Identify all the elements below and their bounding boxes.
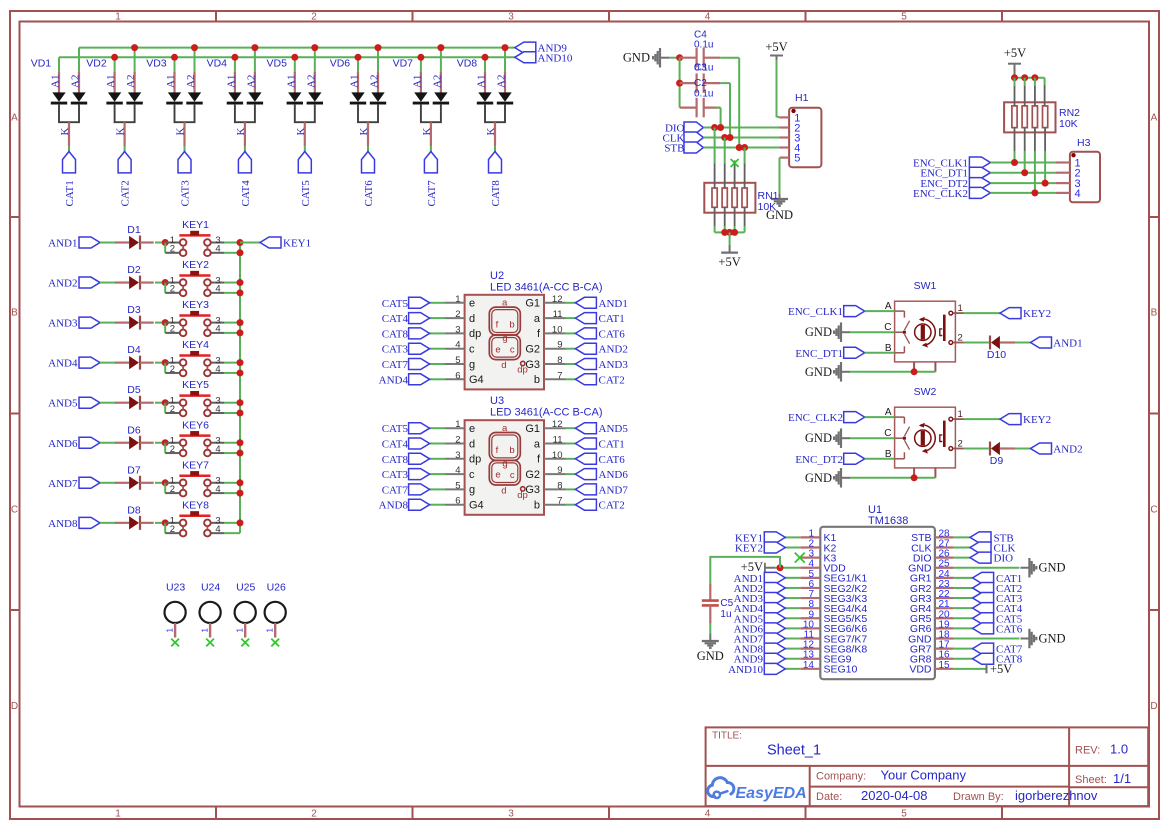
ground GND (SW2 mount) (840, 468, 842, 488)
svg-text:C: C (11, 505, 18, 516)
svg-text:2020-04-08: 2020-04-08 (861, 788, 928, 803)
svg-text:2: 2 (170, 524, 175, 535)
net flag CAT2 (U2 pin 7) (566, 378, 576, 380)
svg-text:KEY5: KEY5 (182, 379, 209, 391)
net flag AND1 (1031, 337, 1052, 348)
svg-text:AND8: AND8 (48, 518, 78, 530)
wire KEY8 pins 3/4 to bus (224, 522, 240, 524)
svg-text:11: 11 (553, 435, 563, 446)
svg-text:KEY2: KEY2 (1023, 414, 1051, 426)
net flag KEY2 (U1 pin2) (785, 547, 800, 549)
svg-text:A2: A2 (496, 75, 508, 88)
svg-text:9: 9 (557, 340, 562, 351)
svg-text:d: d (469, 313, 475, 325)
svg-text:G4: G4 (469, 374, 484, 386)
diode D8 (115, 504, 154, 530)
LED pair VD3 (146, 44, 203, 146)
svg-text:G2: G2 (525, 344, 540, 356)
svg-text:D2: D2 (127, 264, 141, 276)
net flag AND5 (U1 pin 9) (785, 617, 800, 619)
svg-text:2: 2 (170, 244, 175, 255)
wire bus to KEY1 flag (240, 242, 260, 244)
net flag CLK (U1 pin 27) (954, 547, 970, 549)
svg-text:1: 1 (455, 294, 460, 305)
svg-text:7: 7 (557, 370, 562, 381)
switch KEY2 (165, 259, 224, 296)
svg-text:1: 1 (958, 409, 963, 420)
no-connect X (U26) (271, 639, 279, 647)
net flag AND9 (U1 pin 13) (785, 658, 800, 660)
svg-text:CAT1: CAT1 (599, 313, 625, 325)
svg-text:AND6: AND6 (599, 469, 629, 481)
svg-text:U24: U24 (201, 582, 220, 594)
svg-text:AND6: AND6 (48, 438, 78, 450)
net flag CAT8 (489, 152, 502, 173)
switch KEY8 (165, 499, 224, 536)
net flag AND9 (515, 42, 536, 53)
svg-text:4: 4 (1075, 188, 1081, 200)
svg-text:AND10: AND10 (728, 664, 763, 676)
svg-text:U25: U25 (236, 582, 255, 594)
svg-text:SEG10: SEG10 (824, 664, 858, 676)
svg-text:STB: STB (664, 143, 684, 155)
wire K to CAT5 (304, 146, 306, 152)
svg-text:AND5: AND5 (599, 423, 629, 435)
svg-text:CAT4: CAT4 (240, 180, 252, 207)
svg-text:U3: U3 (490, 395, 504, 407)
svg-text:AND3: AND3 (48, 318, 78, 330)
wire AND5 to D5 (100, 402, 116, 404)
svg-text:A2: A2 (245, 75, 257, 88)
svg-text:AND10: AND10 (538, 52, 573, 64)
net flag CAT2 (U1 pin 23) (954, 587, 973, 589)
svg-text:A1: A1 (165, 75, 177, 88)
svg-text:4: 4 (215, 444, 220, 455)
svg-text:1: 1 (115, 809, 121, 820)
svg-text:C2: C2 (694, 78, 707, 89)
switch KEY4 (165, 339, 224, 376)
svg-text:A2: A2 (369, 75, 381, 88)
svg-text:K: K (115, 127, 127, 135)
wire KEY6 pins 3/4 to bus (224, 442, 240, 444)
svg-text:4: 4 (705, 12, 711, 23)
svg-text:e: e (495, 344, 500, 355)
net flag AND6 (79, 437, 100, 448)
wire K to CAT7 (430, 146, 432, 152)
net flag ENC_CLK1 (969, 157, 990, 168)
svg-text:d: d (501, 360, 506, 371)
wire D7 to KEY7 pins 1/2 (155, 482, 165, 484)
net flag ENC_CLK2 (969, 187, 990, 198)
svg-text:CAT3: CAT3 (382, 344, 409, 356)
wire +5V to H1.1 (776, 56, 778, 61)
svg-text:A1: A1 (50, 75, 62, 88)
svg-text:a: a (502, 298, 508, 309)
capacitor C3 0.1u (680, 63, 721, 93)
svg-text:ENC_CLK2: ENC_CLK2 (788, 412, 843, 424)
svg-text:AND7: AND7 (48, 478, 78, 490)
svg-text:Company:: Company: (816, 771, 866, 783)
svg-text:B: B (11, 308, 18, 319)
svg-text:D: D (1150, 701, 1157, 712)
no-connect X (U25) (241, 639, 249, 647)
svg-text:VD8: VD8 (457, 57, 478, 69)
net flag CAT1 (U3 pin 11) (566, 443, 576, 445)
svg-text:A1: A1 (349, 75, 361, 88)
wire D3 to KEY3 pins 1/2 (155, 322, 165, 324)
net flag CAT5 (298, 152, 311, 173)
svg-text:K: K (358, 128, 370, 136)
svg-text:G4: G4 (469, 500, 484, 512)
svg-text:g: g (502, 333, 507, 344)
wire U1.15 to +5V (954, 668, 986, 670)
svg-text:C: C (1150, 505, 1157, 516)
svg-text:f: f (496, 445, 499, 456)
wire GND to SW2 mount pins (850, 477, 935, 479)
svg-text:5: 5 (455, 355, 460, 366)
svg-text:CAT7: CAT7 (382, 359, 409, 371)
svg-text:dp: dp (469, 454, 481, 466)
switch KEY1 (165, 219, 224, 256)
svg-text:CAT1: CAT1 (599, 439, 625, 451)
svg-text:A1: A1 (225, 75, 237, 88)
svg-text:CAT6: CAT6 (599, 454, 626, 466)
svg-text:CAT4: CAT4 (382, 439, 409, 451)
svg-text:4: 4 (705, 809, 711, 820)
svg-text:4: 4 (455, 465, 460, 476)
wire AND9 bus (A2 anodes) (79, 47, 515, 49)
wire GND to SW2.C (850, 437, 895, 439)
EasyEDA logo (708, 778, 807, 802)
title block (706, 727, 1149, 806)
svg-text:12: 12 (552, 294, 563, 305)
svg-text:D10: D10 (987, 349, 1006, 361)
ground GND (H1 pin5) (779, 193, 781, 199)
wire AND1 to D1 (100, 242, 116, 244)
svg-text:1: 1 (200, 628, 209, 633)
svg-text:8: 8 (557, 480, 562, 491)
net flag AND2 (79, 277, 100, 288)
wire KEY1 net vertical bus (239, 243, 241, 534)
svg-text:KEY2: KEY2 (182, 259, 209, 271)
ground GND (SW2 C) (840, 428, 842, 448)
svg-text:1: 1 (115, 12, 121, 23)
net flag AND6 (U1 pin 10) (785, 627, 800, 629)
svg-text:AND7: AND7 (599, 484, 629, 496)
switch KEY5 (165, 379, 224, 416)
svg-text:KEY1: KEY1 (182, 219, 209, 231)
svg-text:D: D (11, 701, 18, 712)
svg-text:K: K (295, 128, 307, 136)
LED pair VD5 (267, 44, 324, 146)
rotary encoder SW1 (884, 280, 963, 372)
switch KEY6 (165, 419, 224, 456)
svg-text:B: B (1151, 308, 1158, 319)
net flag AND2 (1031, 443, 1052, 454)
net flag CAT1 (63, 152, 76, 173)
svg-text:GND: GND (805, 365, 832, 379)
svg-text:AND5: AND5 (48, 398, 78, 410)
svg-text:5: 5 (901, 12, 907, 23)
svg-text:dp: dp (517, 364, 528, 375)
LED pair VD6 (330, 44, 387, 146)
ground GND (U1 pin18) (1020, 638, 1029, 640)
wire K to CAT4 (244, 146, 246, 152)
net flag CAT3 (U1 pin 22) (954, 597, 973, 599)
svg-text:4: 4 (215, 364, 220, 375)
net flag AND1 (U1 pin 5) (785, 577, 800, 579)
wire SW2.1 to KEY2 (964, 418, 1001, 420)
svg-text:REV:: REV: (1075, 745, 1100, 757)
svg-text:5: 5 (455, 480, 460, 491)
wire D9 to AND2 (1015, 448, 1031, 450)
net flag ENC_CLK2 (SW2 A) (844, 412, 865, 423)
net flag ENC_DT2 (969, 178, 990, 189)
wire D1 to KEY1 pins 1/2 (155, 242, 165, 244)
svg-text:a: a (534, 313, 541, 325)
svg-text:e: e (469, 298, 475, 310)
LED pair VD1 (31, 48, 87, 146)
diode D4 (115, 344, 154, 370)
net flag CAT7 (U2 pin 5) (430, 363, 445, 365)
svg-text:AND2: AND2 (1053, 444, 1082, 456)
net flag CAT1 (U2 pin 11) (566, 317, 576, 319)
svg-text:d: d (469, 438, 475, 450)
net flag AND2 (U2 pin 9) (566, 348, 576, 350)
svg-text:KEY2: KEY2 (1023, 308, 1051, 320)
LED pair VD2 (86, 44, 143, 146)
svg-text:CAT3: CAT3 (382, 469, 409, 481)
net flag AND1 (U2 pin 12) (566, 302, 576, 304)
svg-text:c: c (510, 470, 515, 481)
svg-text:AND2: AND2 (48, 278, 77, 290)
capacitor C5 1u (702, 583, 734, 624)
svg-text:D1: D1 (127, 224, 141, 236)
net flag AND7 (U1 pin 11) (785, 638, 800, 640)
svg-text:CAT7: CAT7 (426, 180, 438, 207)
IC U2 LED 3461 7-segment display (445, 270, 602, 390)
svg-text:g: g (469, 359, 475, 371)
wire ENC_CLK1 to H3.1 (990, 162, 1056, 164)
svg-text:+5V: +5V (718, 255, 740, 269)
wire AND2 to D2 (100, 282, 116, 284)
wire K to CAT2 (124, 146, 126, 152)
svg-text:2: 2 (455, 309, 460, 320)
svg-text:KEY4: KEY4 (182, 339, 209, 351)
svg-text:AND4: AND4 (48, 358, 78, 370)
net flag AND3 (79, 317, 100, 328)
svg-text:9: 9 (557, 465, 562, 476)
net flag AND4 (79, 357, 100, 368)
diode D2 (115, 264, 154, 290)
net flag KEY1 (260, 237, 281, 248)
wire K to CAT1 (68, 146, 70, 152)
svg-text:AND4: AND4 (379, 374, 409, 386)
diode D5 (115, 384, 154, 410)
net flag STB (U1 pin 28) (954, 536, 970, 538)
net flag CAT6 (362, 152, 375, 173)
svg-text:1: 1 (265, 628, 274, 633)
svg-text:4: 4 (215, 484, 220, 495)
wire ENC_DT2 to SW2.B (865, 458, 895, 460)
wire U1.25 to GND (954, 567, 1020, 569)
svg-text:6: 6 (455, 370, 460, 381)
net flag AND3 (U2 pin 8) (566, 363, 576, 365)
svg-text:g: g (502, 459, 507, 470)
capacitor C2 0.1u (680, 78, 721, 117)
svg-text:VD7: VD7 (393, 57, 414, 69)
svg-text:AND1: AND1 (48, 238, 77, 250)
svg-text:LED 3461(A-CC B-CA): LED 3461(A-CC B-CA) (490, 407, 602, 419)
net flag ENC_DT2 (SW2 B) (844, 453, 865, 464)
wire KEY1 pins 3/4 to bus (224, 242, 240, 244)
net flag AND8 (U1 pin 12) (785, 648, 800, 650)
svg-text:VD1: VD1 (31, 57, 52, 69)
IC U1 TM1638 (800, 504, 953, 679)
svg-text:1: 1 (958, 303, 963, 314)
net flag CAT8 (U1 pin 16) (954, 658, 973, 660)
svg-text:ENC_CLK2: ENC_CLK2 (913, 188, 968, 200)
svg-text:K: K (421, 128, 433, 136)
svg-text:2: 2 (311, 12, 317, 23)
net flag CAT7 (U3 pin 5) (430, 488, 445, 490)
svg-text:VD6: VD6 (330, 57, 351, 69)
wire RN1 commons to +5V (715, 231, 745, 233)
svg-text:4: 4 (455, 340, 460, 351)
no-connect X (U23) (171, 639, 179, 647)
net flag AND10 (515, 52, 536, 63)
net flag CAT8 (U2 pin 3) (430, 332, 445, 334)
diode D7 (115, 464, 154, 490)
svg-text:2: 2 (170, 284, 175, 295)
net flag AND3 (U1 pin 7) (785, 597, 800, 599)
svg-text:A2: A2 (305, 75, 317, 88)
wire K to CAT6 (367, 146, 369, 152)
svg-text:SW1: SW1 (914, 280, 937, 292)
svg-text:A: A (11, 113, 18, 124)
svg-text:1/1: 1/1 (1113, 771, 1131, 786)
svg-text:LED 3461(A-CC B-CA): LED 3461(A-CC B-CA) (490, 281, 602, 293)
wire +5V to U1.4 and C5 (765, 567, 775, 569)
wire U1.18 to GND (954, 638, 1020, 640)
svg-text:A: A (1151, 113, 1158, 124)
net flag CAT6 (U2 pin 10) (566, 332, 576, 334)
net flag DIO (684, 122, 703, 133)
wire D4 to KEY4 pins 1/2 (155, 362, 165, 364)
svg-text:TITLE:: TITLE: (712, 731, 742, 742)
ground GND (U1 pin25) (1020, 567, 1029, 569)
resistor network RN2 10K (1004, 78, 1080, 193)
wire K to CAT8 (494, 146, 496, 152)
svg-text:a: a (534, 438, 541, 450)
diode D1 (115, 224, 154, 250)
wire ENC_CLK2 to SW2.A (865, 416, 895, 418)
svg-text:3: 3 (455, 324, 460, 335)
wire ENC_DT2 to H3.3 (990, 182, 1056, 184)
svg-text:3: 3 (455, 450, 460, 461)
wire AND6 to D6 (100, 442, 116, 444)
svg-text:2: 2 (170, 324, 175, 335)
svg-text:4: 4 (215, 404, 220, 415)
svg-text:GND: GND (805, 431, 832, 445)
svg-text:CAT2: CAT2 (120, 180, 132, 206)
svg-text:VD4: VD4 (207, 57, 228, 69)
no-connect X on RN1 pin (731, 159, 739, 167)
svg-text:H1: H1 (795, 92, 809, 104)
wire D5 to KEY5 pins 1/2 (155, 402, 165, 404)
svg-text:G2: G2 (525, 469, 540, 481)
wire D6 to KEY6 pins 1/2 (155, 442, 165, 444)
svg-text:H3: H3 (1077, 137, 1091, 149)
svg-text:D9: D9 (990, 455, 1004, 467)
net flag AND8 (U3 pin 6) (430, 504, 445, 506)
svg-text:dp: dp (517, 490, 528, 501)
mounting hole U26 (265, 582, 286, 638)
net flag AND5 (U3 pin 12) (566, 427, 576, 429)
net flag AND10 (U1 pin 14) (785, 668, 800, 670)
svg-text:A1: A1 (411, 75, 423, 88)
svg-text:12: 12 (552, 419, 563, 430)
wire ENC_CLK2 to H3.4 (990, 192, 1056, 194)
net flag CAT5 (U3 pin 1) (430, 427, 445, 429)
wire KEY2 pins 3/4 to bus (224, 282, 240, 284)
net flag CAT6 (U3 pin 10) (566, 458, 576, 460)
svg-text:GND: GND (1039, 561, 1066, 575)
svg-text:2: 2 (170, 444, 175, 455)
net flag CAT6 (U1 pin 19) (954, 627, 973, 629)
IC U3 LED 3461 7-segment display (445, 395, 602, 515)
svg-text:VD3: VD3 (146, 57, 167, 69)
svg-text:11: 11 (553, 309, 563, 320)
svg-text:d: d (501, 486, 506, 497)
svg-text:CAT6: CAT6 (996, 623, 1023, 635)
svg-text:D7: D7 (127, 464, 141, 476)
svg-text:CAT6: CAT6 (363, 180, 375, 207)
wire D2 to KEY2 pins 1/2 (155, 282, 165, 284)
net flag AND4 (U2 pin 6) (430, 378, 445, 380)
wire GND to C4 / rail (669, 57, 680, 59)
svg-text:f: f (496, 320, 499, 331)
net flag AND7 (U3 pin 8) (566, 488, 576, 490)
svg-text:AND3: AND3 (599, 359, 629, 371)
switch KEY7 (165, 459, 224, 496)
svg-text:A2: A2 (185, 75, 197, 88)
svg-text:4: 4 (215, 324, 220, 335)
svg-text:e: e (495, 470, 500, 481)
net flag CAT3 (178, 152, 191, 173)
wire SW2.2 to D9 (964, 448, 989, 450)
net flag AND8 (79, 517, 100, 528)
svg-text:a: a (502, 423, 508, 434)
svg-text:ENC_CLK1: ENC_CLK1 (788, 306, 843, 318)
svg-text:U2: U2 (490, 270, 504, 282)
svg-text:4: 4 (215, 284, 220, 295)
svg-text:SW2: SW2 (914, 386, 937, 398)
net flag ENC_DT1 (969, 167, 990, 178)
svg-text:K: K (175, 128, 187, 136)
net flag KEY2 (SW1 pin1) (1000, 308, 1021, 319)
svg-text:10K: 10K (1059, 118, 1078, 130)
wire D8 to KEY8 pins 1/2 (155, 522, 165, 524)
wire CLK to H1.3 (703, 137, 779, 139)
svg-text:dp: dp (469, 328, 481, 340)
svg-text:VDD: VDD (909, 664, 932, 676)
net flag ENC_DT1 (SW1 B) (844, 347, 865, 358)
svg-text:EasyEDA: EasyEDA (736, 785, 807, 802)
svg-text:c: c (510, 345, 515, 356)
svg-text:U26: U26 (267, 582, 286, 594)
svg-text:AND8: AND8 (379, 500, 409, 512)
